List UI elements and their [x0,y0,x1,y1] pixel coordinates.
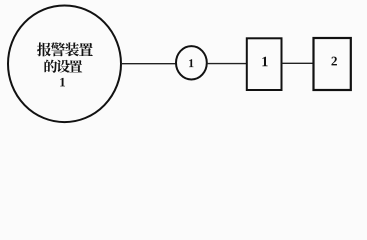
text char 警 [51,42,65,56]
big circle label 1 [60,78,65,87]
text char 置 [79,43,93,56]
wire from box 1 to box 2 [282,62,314,64]
text char 的 [44,60,57,73]
big circle: alarm device setup bubble [8,6,121,123]
box 1 label 1 [262,57,267,66]
box 1 [247,38,282,90]
wire from big circle to small circle [121,63,177,65]
small circle node 1 [176,46,207,79]
text char 设 [57,60,70,73]
small circle label 1 [189,59,193,67]
box 2 [314,38,351,90]
text char 装 [65,42,79,56]
wire from small circle to box 1 [207,63,247,65]
text char 置 [69,60,82,72]
box 2 label 2 [331,57,336,66]
text char 报 [37,42,51,56]
